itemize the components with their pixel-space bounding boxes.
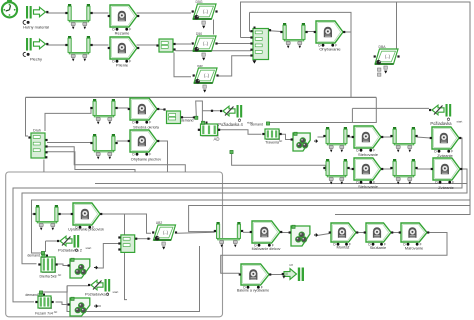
wire demand return xyxy=(32,200,471,253)
wire rezanie to conveyor xyxy=(137,12,192,14)
wire queue r6b to wc xyxy=(60,213,72,215)
svg-text:Stehovanie: Stehovanie xyxy=(358,184,379,189)
svg-text:Maľovanie dielcov: Maľovanie dielcov xyxy=(252,247,281,251)
multiport Druh xyxy=(28,129,47,159)
svg-text:start: start xyxy=(457,119,463,123)
wire druh to queue r5 xyxy=(47,142,91,145)
queue row6 right xyxy=(390,159,417,184)
wire chain r5r b xyxy=(383,136,392,138)
wire request return xyxy=(352,107,429,109)
work centre Upratovanie xyxy=(68,203,104,232)
end point exit xyxy=(282,263,304,281)
svg-text:D50: D50 xyxy=(196,32,202,36)
svg-text:AD: AD xyxy=(214,137,220,142)
machine Dielna xyxy=(38,254,61,278)
collector block bottom-left xyxy=(118,235,149,253)
wire return line a xyxy=(95,183,467,185)
svg-text:D: D xyxy=(132,121,135,125)
wire zvaranie r5 return xyxy=(13,138,462,302)
wire sorter feed top xyxy=(250,12,252,31)
svg-text:Dielňa 5x8: Dielňa 5x8 xyxy=(40,275,57,279)
svg-text:Balenie a vydávanie: Balenie a vydávanie xyxy=(237,289,269,293)
svg-text:D: D xyxy=(132,153,135,157)
wire zvaranie r6 return xyxy=(22,169,467,264)
wire long bus 97 drop xyxy=(270,97,377,122)
svg-text:(..): (..) xyxy=(385,54,391,59)
svg-text:F: F xyxy=(129,28,131,32)
wire resource1 to collector xyxy=(96,244,119,269)
wire queue r6b feed xyxy=(32,213,35,215)
wire request1 out xyxy=(46,240,58,242)
conveyor D50 xyxy=(192,32,218,61)
svg-text:DBA: DBA xyxy=(379,45,387,49)
conveyor D5G xyxy=(192,0,218,29)
svg-text:F: F xyxy=(149,153,151,157)
svg-text:start: start xyxy=(86,246,92,250)
wire demand drop xyxy=(351,108,353,122)
wire long bus 97w xyxy=(26,96,377,98)
demand port r6 feed xyxy=(230,150,233,153)
machine AD xyxy=(198,121,220,141)
demand label travenie xyxy=(250,122,269,127)
svg-text:Travenia: Travenia xyxy=(265,141,279,145)
wire queue r4 to wc xyxy=(117,107,129,109)
conveyor nav xyxy=(193,64,219,93)
wire frame drop xyxy=(67,246,200,312)
demand label row4 xyxy=(181,116,198,122)
wire druh feed xyxy=(26,97,29,136)
wire start plechy to queue xyxy=(47,44,67,46)
wire queue to workcentre row1 xyxy=(92,12,109,14)
conveyor UB2 xyxy=(152,221,177,250)
wire request2 out xyxy=(41,286,89,292)
svg-text:Pílenie: Pílenie xyxy=(116,63,129,68)
svg-text:Požiadavka: Požiadavka xyxy=(430,121,452,126)
wire r6 feed long xyxy=(232,154,326,171)
machine Travenie xyxy=(262,129,282,145)
svg-text:F: F xyxy=(149,121,151,125)
queue row7 xyxy=(214,222,243,247)
svg-text:(..): (..) xyxy=(203,41,209,46)
wire sorter feedback loop xyxy=(250,12,352,97)
wire DBA feed xyxy=(396,2,398,50)
work centre Rezanie xyxy=(108,5,140,36)
svg-text:Hutný materiál: Hutný materiál xyxy=(23,25,49,30)
resource row5 xyxy=(291,132,318,151)
wire druh out 2 xyxy=(47,147,185,172)
work centre Malovanie xyxy=(399,223,430,251)
work centre Malovanie dielcov xyxy=(250,221,283,251)
buffer block M5G xyxy=(156,39,175,52)
wire druh bottom down xyxy=(43,160,45,173)
svg-text:(..): (..) xyxy=(163,230,169,235)
wire balenie feed xyxy=(220,255,222,273)
queue row4 xyxy=(90,99,117,124)
svg-text:Požiadavka 2: Požiadavka 2 xyxy=(58,248,83,253)
wire chain r5r a xyxy=(348,136,354,138)
wire queue to workcentre row2 xyxy=(92,44,109,46)
wire travenie to resource xyxy=(280,134,292,139)
wire druh out 3 xyxy=(47,152,135,172)
wire resource2 stub xyxy=(96,305,102,307)
svg-text:D5G: D5G xyxy=(196,0,203,4)
wire ohybanie plechov out xyxy=(158,141,168,172)
work centre Zvaranie r6 xyxy=(431,158,463,190)
wire block lower output xyxy=(176,50,252,52)
queue row2 xyxy=(65,36,92,61)
wire loop lower branch xyxy=(335,206,470,215)
machine Fuzam xyxy=(35,293,57,315)
start point Hutny material xyxy=(23,6,49,30)
wire conveyor D5G down to D50 xyxy=(213,20,215,35)
wire conveyor D50 to sorter xyxy=(218,43,252,45)
svg-text:AD: AD xyxy=(58,273,62,277)
work centre Ohybanie plechov xyxy=(128,130,162,162)
resource row7 xyxy=(289,225,318,246)
work centre Pilenie xyxy=(108,37,140,68)
wire resource r7 to montaz xyxy=(317,234,330,236)
svg-text:Montáž: Montáž xyxy=(336,245,349,250)
wire collector to conveyor ub2 xyxy=(137,238,151,240)
wire request1 demand xyxy=(45,241,47,252)
svg-text:Upratovanie pracovísk: Upratovanie pracovísk xyxy=(68,228,104,232)
svg-text:Zváranie: Zváranie xyxy=(437,153,453,158)
svg-text:F: F xyxy=(129,60,131,64)
wire start hutny to queue xyxy=(47,12,67,14)
wire resource to queue r5r xyxy=(318,136,325,138)
wire ad output xyxy=(220,130,262,135)
queue row6b xyxy=(33,205,60,230)
demand label machine2 xyxy=(25,291,42,297)
wire wc to resource r7 xyxy=(282,232,290,234)
wire queue to ohybavanie xyxy=(307,31,315,33)
work centre Stredna okriola xyxy=(128,98,160,130)
svg-text:Plechy: Plechy xyxy=(30,57,42,62)
wire chain r6 b xyxy=(383,168,392,170)
start point Poziadavka 4 xyxy=(211,105,253,127)
queue row5 left xyxy=(90,134,117,159)
work centre Stehovanie r6 xyxy=(352,158,384,189)
svg-text:Fúzam 7x4: Fúzam 7x4 xyxy=(35,312,53,316)
work centre Stehovanie r5 xyxy=(352,126,384,157)
resource bottom1 xyxy=(68,258,98,278)
svg-text:nav: nav xyxy=(197,64,203,68)
wire collector vertical xyxy=(125,214,128,300)
start point Poziadavka right xyxy=(429,104,463,126)
demand label machine1 xyxy=(27,251,44,257)
wire top loop D50 to row7 xyxy=(189,2,470,232)
wire chain r7 a xyxy=(355,232,365,234)
svg-text:demand: demand xyxy=(250,123,263,127)
work centre Balenie xyxy=(237,264,271,293)
svg-text:Zváranie: Zváranie xyxy=(438,185,454,190)
wire sorter to queue xyxy=(270,30,281,33)
wire chain r7 b xyxy=(390,232,400,234)
svg-text:demand: demand xyxy=(181,118,194,122)
svg-text:Ohýbavanie: Ohýbavanie xyxy=(319,47,341,52)
wire malovanie out xyxy=(221,233,447,274)
svg-text:demand: demand xyxy=(25,293,38,297)
wire queue r7 to wc xyxy=(243,231,251,233)
wire chain r5r c xyxy=(417,137,431,138)
wire workcentre to block row2 xyxy=(137,44,158,46)
wire upratovanie out xyxy=(99,214,151,233)
svg-text:Požiadavka 3: Požiadavka 3 xyxy=(85,292,110,297)
work centre Skusanie xyxy=(364,223,394,250)
wire fuzam to resource xyxy=(56,302,69,305)
wire chain r6 a xyxy=(350,168,353,170)
work centre Montaz xyxy=(329,223,359,250)
svg-text:Rezanie: Rezanie xyxy=(115,31,130,36)
svg-text:demand: demand xyxy=(27,254,40,258)
wire dielna to resource xyxy=(57,264,69,266)
work centre Ohybavanie xyxy=(314,21,346,52)
svg-text:(..): (..) xyxy=(204,73,210,78)
svg-text:(..): (..) xyxy=(203,9,209,14)
queue row5 right xyxy=(390,127,417,152)
svg-text:AD: AD xyxy=(54,310,58,314)
clock icon xyxy=(2,0,17,17)
buffer block row4 xyxy=(163,108,183,123)
resource bottom2 xyxy=(68,297,98,316)
start point Poziadavka bl1 xyxy=(57,235,92,253)
wire queue r4 feed xyxy=(45,109,91,131)
wire block to demand xyxy=(182,116,195,118)
work centre Zvaranie r5 xyxy=(430,127,462,158)
svg-text:Skúšanie: Skúšanie xyxy=(370,245,387,250)
conveyor DBA xyxy=(374,45,400,76)
wire chain r6 c xyxy=(417,168,432,170)
queue row2 right xyxy=(280,23,307,48)
wire wc stredna to block xyxy=(158,108,165,111)
queue row6 mid xyxy=(323,159,349,184)
wire queue r5 to wc xyxy=(117,140,129,142)
wire balenie to exit xyxy=(271,274,283,276)
svg-text:Požiadavka 4: Požiadavka 4 xyxy=(218,122,243,127)
wire block to conveyor D50 xyxy=(176,43,192,45)
group frame bottom-left xyxy=(6,172,223,317)
wire request4 to demand xyxy=(196,101,204,122)
svg-text:Stredná okrioľa: Stredná okrioľa xyxy=(133,126,160,130)
wire conveyor ub2 out xyxy=(177,232,215,233)
wire request4 tip xyxy=(202,110,221,112)
wire sorter feed 1 xyxy=(241,37,252,39)
start point Plechy xyxy=(23,38,48,62)
svg-text:AD: AD xyxy=(279,139,283,143)
svg-text:U8: U8 xyxy=(289,263,293,267)
svg-text:Druh: Druh xyxy=(33,129,41,133)
svg-text:start: start xyxy=(113,290,119,294)
wire ohybavanie output xyxy=(345,31,352,33)
queue row1 xyxy=(65,4,92,29)
svg-text:UB2: UB2 xyxy=(156,221,163,225)
wire conveyor nav output xyxy=(218,56,252,76)
start point Poziadavka bl2 xyxy=(85,279,119,297)
queue row5 mid xyxy=(323,127,349,152)
sorter block xyxy=(250,27,271,64)
svg-text:Maľovanie: Maľovanie xyxy=(405,246,424,251)
wire conveyor nav input xyxy=(174,53,191,77)
svg-text:Stehovanie: Stehovanie xyxy=(358,152,379,157)
svg-text:Ohýbanie plechov: Ohýbanie plechov xyxy=(131,158,161,162)
